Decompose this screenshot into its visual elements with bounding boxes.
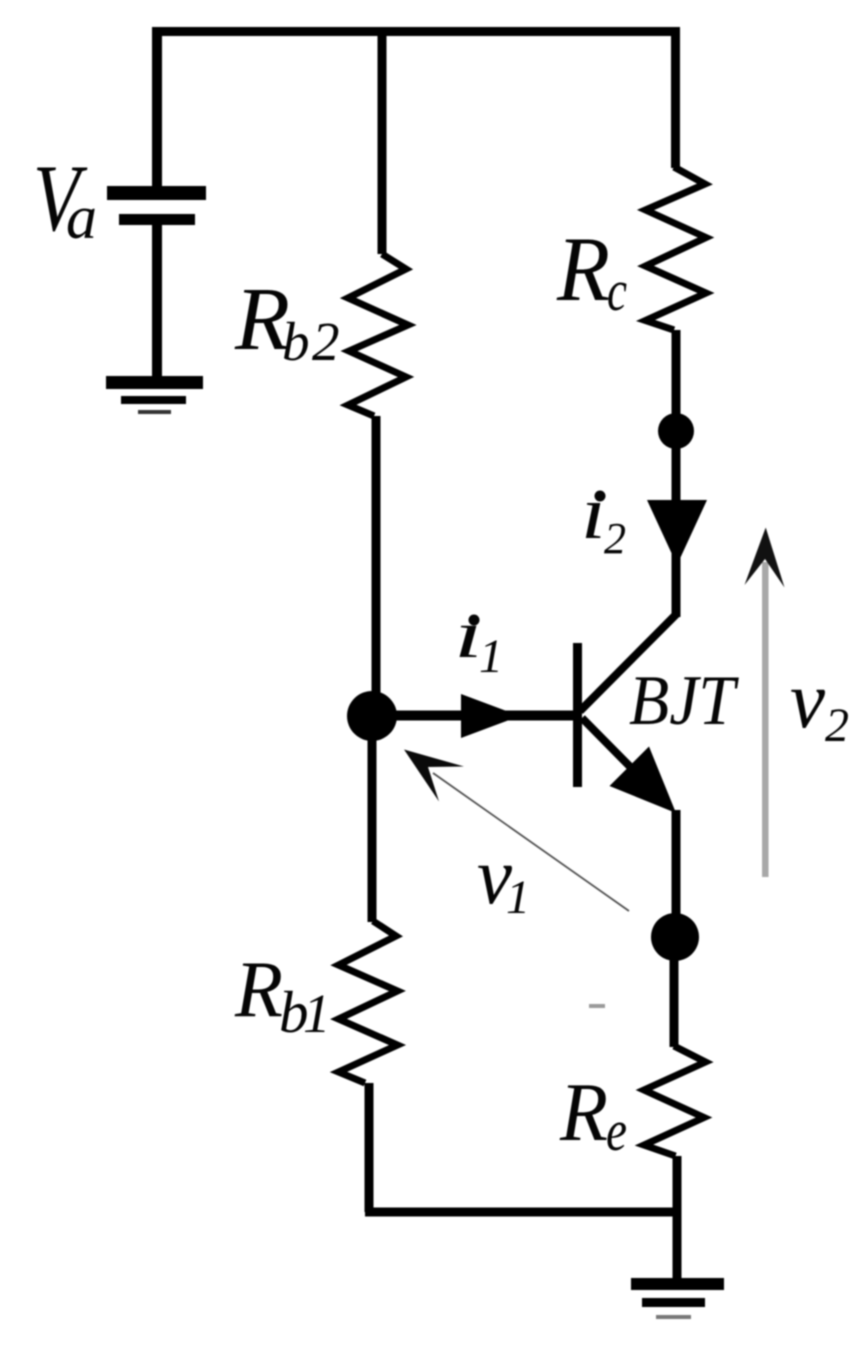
svg-text:2: 2 xyxy=(312,311,340,372)
battery V_a long plate xyxy=(107,186,206,200)
resistor R_b2 xyxy=(348,254,408,416)
node collector (dot) xyxy=(658,413,694,449)
svg-text:1: 1 xyxy=(506,871,530,924)
wire R_e to bottom rail and ground xyxy=(673,1156,682,1280)
node emitter (dot) xyxy=(651,913,699,961)
resistor R_c xyxy=(646,167,707,330)
label R_e xyxy=(559,1066,627,1163)
wire bottom horizontal rail xyxy=(365,1208,681,1217)
wire left vertical from top to battery xyxy=(152,27,162,187)
svg-text:e: e xyxy=(606,1098,627,1163)
svg-text:BJT: BJT xyxy=(629,662,739,740)
wire R_b1 to bottom rail xyxy=(365,1083,374,1212)
arrowhead i_2 (current into collector) xyxy=(647,500,707,565)
transistor Q1 BJT: emitter arrowhead xyxy=(610,747,677,814)
svg-text:R: R xyxy=(556,218,610,320)
wire collector node down xyxy=(672,431,681,617)
wire base horizontal (node to base) xyxy=(372,711,578,721)
wire R_b2 to base node xyxy=(372,416,381,716)
svg-text:R: R xyxy=(559,1066,608,1159)
label R_c xyxy=(556,218,627,323)
svg-text:ı: ı xyxy=(581,471,606,555)
arrowhead i_1 (base current) xyxy=(461,694,520,738)
svg-text:c: c xyxy=(607,258,627,323)
label i_2 xyxy=(581,471,626,563)
resistor R_e xyxy=(644,1046,706,1156)
wire top horizontal xyxy=(152,27,679,36)
svg-text:v: v xyxy=(790,654,826,745)
label V_a xyxy=(33,145,97,252)
wire battery to ground xyxy=(152,225,162,378)
transistor Q1 BJT: emitter diagonal xyxy=(582,718,660,797)
voltage arrow v_1 (thin diagonal with barbed head) xyxy=(433,773,629,911)
transistor Q1 BJT: base bar xyxy=(573,643,582,787)
ground (left, below V_a) xyxy=(106,376,203,414)
svg-text:2: 2 xyxy=(825,699,849,752)
svg-text:a: a xyxy=(66,184,97,252)
node base (junction dot) xyxy=(347,691,397,741)
wire emitter vertical to emitter node xyxy=(672,810,681,937)
svg-text:2: 2 xyxy=(604,514,626,563)
svg-text:R: R xyxy=(234,944,283,1034)
label i_1 xyxy=(454,596,503,683)
transistor Q1 BJT: collector diagonal xyxy=(580,614,677,711)
label R_b1 xyxy=(234,944,330,1045)
label v_2 xyxy=(790,654,849,752)
ground (bottom right) xyxy=(631,1278,724,1319)
label v_1 xyxy=(477,830,530,924)
wire R_c to collector node xyxy=(672,330,681,431)
battery V_a short plate xyxy=(119,214,195,225)
svg-text:1: 1 xyxy=(303,983,331,1044)
svg-text:b: b xyxy=(282,311,310,372)
svg-text:1: 1 xyxy=(479,630,503,683)
wire right vertical top (to R_c) xyxy=(671,27,680,168)
resistor R_b1 xyxy=(339,921,398,1083)
voltage arrow v_2 (gray vertical with barbed head) xyxy=(762,562,769,877)
label R_b2 xyxy=(234,270,340,372)
wire middle vertical top (to R_b2) xyxy=(378,27,387,254)
stray gray dash artifact xyxy=(589,1004,605,1008)
wire base node down to R_b1 xyxy=(368,716,377,922)
wire emitter node to R_e xyxy=(670,937,679,1047)
